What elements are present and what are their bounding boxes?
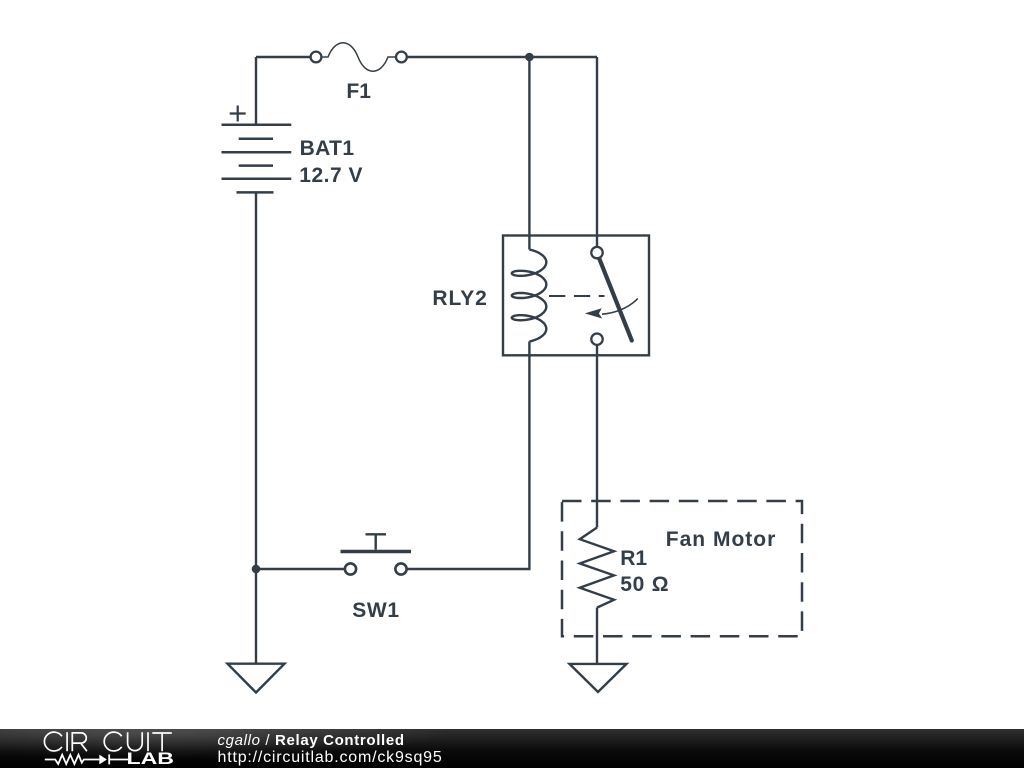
wire left rail bottom [255, 192, 257, 663]
logo CIRCUIT [44, 732, 171, 751]
ground right [570, 664, 627, 692]
relay switch contact bottom [591, 334, 602, 345]
relay coil [512, 250, 547, 342]
label F1 [346, 80, 371, 104]
relay RLY2 box [503, 236, 649, 356]
battery plus sign [230, 106, 246, 122]
svg-text:cgallo / Relay Controlled: cgallo / Relay Controlled [218, 732, 405, 749]
node junction top wire [525, 53, 534, 62]
fuse F1 [311, 43, 407, 72]
wire fuse to top right corner [407, 56, 597, 58]
wire top left corner to fuse [256, 56, 311, 58]
relay switch arm [599, 258, 632, 341]
wire junction to SW1 left [256, 568, 345, 570]
wire resistor R1 to ground [596, 608, 598, 664]
label RLY2 [432, 287, 487, 311]
footer bar [0, 729, 1024, 768]
label R1 [620, 547, 647, 571]
svg-text:http://circuitlab.com/ck9sq95: http://circuitlab.com/ck9sq95 [218, 749, 443, 766]
wire junction to relay coil top [528, 57, 530, 250]
resistor R1 zigzag [580, 528, 614, 608]
Fan Motor dashed box [562, 501, 802, 636]
label Fan Motor [666, 528, 776, 552]
label SW1 [352, 599, 399, 623]
node junction SW1 left [252, 565, 261, 574]
switch SW1 actuator stem [375, 534, 377, 549]
logo diode triangle [99, 755, 107, 765]
wire corner to relay switch top [596, 57, 598, 247]
svg-text:LAB: LAB [127, 750, 175, 768]
ground left [228, 664, 285, 693]
switch SW1 contact left [345, 563, 356, 574]
wire left rail top [255, 57, 257, 125]
logo resistor diode squiggle [45, 754, 128, 764]
wire SW1 right to relay coil bottom [406, 342, 529, 570]
label BAT1 [300, 137, 355, 161]
label 50 ohm [620, 573, 669, 597]
wire relay switch bottom to resistor R1 [596, 345, 598, 528]
relay dashed link [549, 295, 605, 297]
label 12.7 V [299, 164, 363, 188]
battery BAT1 plates [222, 125, 292, 193]
switch SW1 contact right [395, 563, 406, 574]
switch SW1 actuator cap [366, 533, 387, 535]
relay switch contact top [591, 247, 602, 258]
switch SW1 button bar [341, 550, 412, 553]
relay arrow [602, 299, 638, 315]
